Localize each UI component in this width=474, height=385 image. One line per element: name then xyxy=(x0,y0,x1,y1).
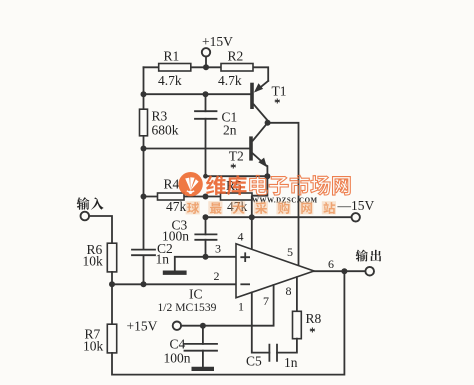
node C1 top xyxy=(203,91,209,97)
node collectors junction xyxy=(265,120,271,126)
star T2 xyxy=(231,164,236,169)
svg-text:1n: 1n xyxy=(284,355,298,370)
node R4 left xyxy=(141,194,147,200)
svg-text:R3: R3 xyxy=(152,109,168,124)
svg-text:R2: R2 xyxy=(228,49,244,64)
wire collector junction to pin5 column xyxy=(268,123,299,266)
svg-text:T1: T1 xyxy=(272,84,287,99)
capacitor C5 xyxy=(269,345,277,361)
resistor R4 xyxy=(158,193,185,200)
wire T2 base rail xyxy=(144,148,250,150)
wire T2 collector xyxy=(253,123,268,141)
node left base rail xyxy=(141,91,147,97)
op-amp U1 triangle xyxy=(236,244,314,298)
wire bottom feedback rail xyxy=(112,271,344,374)
svg-text:10k: 10k xyxy=(83,339,104,354)
input terminal xyxy=(81,212,90,221)
wire top rail R1-R2 row xyxy=(144,67,269,81)
wire R4 R5 row xyxy=(144,196,221,198)
resistor R2 xyxy=(221,64,253,72)
svg-text:C5: C5 xyxy=(246,354,262,369)
star T1 xyxy=(275,99,280,104)
wire -15V rail xyxy=(206,216,352,218)
node emitter rail C1 column tap xyxy=(203,174,208,179)
capacitor C4 xyxy=(202,326,204,367)
node output junction xyxy=(341,268,347,274)
resistor R5 xyxy=(221,193,253,200)
svg-text:7: 7 xyxy=(263,294,269,308)
capacitor C2 xyxy=(132,250,155,285)
svg-text:5: 5 xyxy=(287,245,293,259)
svg-text:—15V: —15V xyxy=(337,198,375,213)
node T2 emitter xyxy=(264,173,270,179)
wire C5 branch xyxy=(252,326,297,353)
node C2 bottom on pin2 rail xyxy=(141,281,147,287)
svg-text:+15V: +15V xyxy=(127,319,158,334)
node -15V rail left xyxy=(203,214,209,220)
svg-text:100n: 100n xyxy=(164,351,191,366)
resistor R1 xyxy=(159,64,191,72)
svg-text:R4: R4 xyxy=(164,177,180,192)
svg-text:4: 4 xyxy=(238,230,244,244)
wire pin3 to op-amp xyxy=(206,256,237,258)
svg-text:1n: 1n xyxy=(156,252,170,267)
-15V terminal xyxy=(352,213,360,221)
output wire pin6 xyxy=(314,270,365,272)
wire T2 emitter xyxy=(253,154,268,177)
resistor R8 xyxy=(293,311,302,338)
svg-text:2n: 2n xyxy=(223,123,237,138)
watermark big text weiku dianzi shichang wang xyxy=(206,175,350,195)
svg-text:1/2 MC1539: 1/2 MC1539 xyxy=(158,301,217,314)
resistor R7 xyxy=(107,324,116,353)
svg-text:IC: IC xyxy=(189,287,203,302)
svg-text:680k: 680k xyxy=(152,123,179,138)
svg-text:R8: R8 xyxy=(306,311,322,326)
capacitor C3 xyxy=(205,217,207,257)
resistor R3 xyxy=(140,109,148,136)
+15V terminal bottom xyxy=(173,322,181,330)
star R8 xyxy=(310,328,315,333)
output label shuchu xyxy=(356,250,382,262)
ground near pin3 xyxy=(175,257,206,271)
svg-text:8: 8 xyxy=(286,284,292,298)
transistor T1 xyxy=(250,83,254,109)
node C4 top xyxy=(200,323,206,329)
node T2 base left xyxy=(141,146,147,152)
wire R5 right drop xyxy=(251,197,253,218)
svg-text:4.7k: 4.7k xyxy=(218,73,242,88)
svg-text:T2: T2 xyxy=(229,149,244,164)
wire T1 base rail xyxy=(144,93,251,95)
+15V terminal top xyxy=(202,48,210,56)
svg-text:10k: 10k xyxy=(83,254,104,269)
node pin3 xyxy=(203,254,209,260)
transistor T2 xyxy=(249,136,253,160)
ground under C4 xyxy=(192,367,215,371)
svg-text:4.7k: 4.7k xyxy=(158,73,182,88)
node -15V rail pin4 tap xyxy=(249,214,255,220)
node pin2 rail left xyxy=(109,281,115,287)
svg-text:3: 3 xyxy=(215,242,221,256)
wire R6 to pin2 node xyxy=(111,272,113,324)
wire emitter to C1 column xyxy=(206,175,268,177)
wire emitter down to R5 right xyxy=(252,176,267,196)
wire left column xyxy=(143,67,145,249)
svg-text:1: 1 xyxy=(238,300,244,314)
node R4 R5 mid xyxy=(203,194,209,200)
svg-text:2: 2 xyxy=(214,269,220,283)
svg-text:+15V: +15V xyxy=(202,34,233,49)
watermark logo disc xyxy=(178,172,202,196)
svg-text:R1: R1 xyxy=(164,49,180,64)
wire pin8 to R8 xyxy=(296,277,298,311)
input label shuru xyxy=(77,197,104,210)
wire pin2 rail xyxy=(112,283,236,285)
node top rail junction xyxy=(203,64,209,70)
watermark small boxed chars row xyxy=(186,201,336,214)
svg-text:47k: 47k xyxy=(166,199,187,214)
resistor R6 xyxy=(107,243,116,272)
wire pin1 pin7 supply joins xyxy=(252,285,274,326)
svg-text:6: 6 xyxy=(328,257,334,271)
output terminal xyxy=(365,267,374,276)
capacitor C1 xyxy=(205,94,207,176)
wire pin4 supply xyxy=(251,217,253,250)
svg-text:C4: C4 xyxy=(170,337,186,352)
